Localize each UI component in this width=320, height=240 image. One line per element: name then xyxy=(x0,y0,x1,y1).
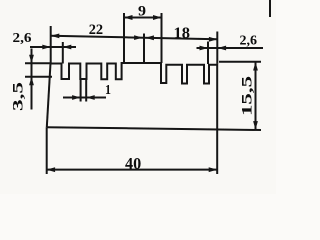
svg-text:15,5: 15,5 xyxy=(240,76,256,116)
svg-text:2,6: 2,6 xyxy=(240,34,258,49)
svg-text:22: 22 xyxy=(89,22,103,38)
svg-text:18: 18 xyxy=(174,25,191,42)
svg-text:2,6: 2,6 xyxy=(13,31,32,46)
svg-text:40: 40 xyxy=(125,154,141,173)
svg-text:1: 1 xyxy=(105,83,111,98)
svg-text:9: 9 xyxy=(138,4,146,20)
svg-text:3,5: 3,5 xyxy=(11,82,27,111)
